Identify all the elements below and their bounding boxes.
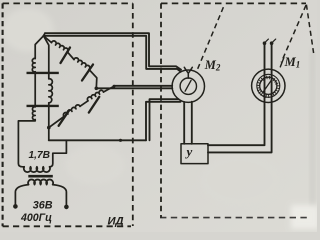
core slash of W4 [89, 97, 100, 113]
winding W2 coil [74, 58, 90, 70]
wire middle pair upper line [114, 85, 172, 87]
winding W3 coil [63, 105, 80, 117]
motor M2 Y symbol [184, 67, 192, 78]
winding W1 coil [52, 41, 69, 52]
wire between W3 and W4 [80, 101, 88, 107]
core slash of W2 [82, 65, 93, 81]
motor M2 leg left [183, 102, 185, 144]
winding W4 coil [87, 90, 103, 100]
motor M1 rotor slash [264, 80, 272, 92]
motor M2 rotor slash [185, 80, 191, 91]
wire T to left winding v1 [35, 36, 43, 59]
transformer T1 secondary winding [28, 179, 53, 184]
dashed enclosure ИД left box bottom edge [3, 225, 131, 227]
dashed slant to motor M2 [197, 7, 223, 70]
wire W4 to middle wire [104, 86, 115, 92]
terminal dot M1 right [270, 41, 274, 45]
wire У to M1 lower [208, 43, 272, 152]
amplifier У box [181, 144, 208, 164]
wire between W1 and W2 [68, 52, 75, 59]
junction dot on bottom wire [119, 139, 122, 142]
dashed slant to motor M1 [281, 5, 306, 62]
control winding v1 upper coil [32, 58, 35, 71]
svg-text:36В: 36В [33, 199, 53, 211]
wire top pair inner line to step [44, 36, 181, 71]
wire v1 to transformer primary [18, 120, 35, 167]
wire secondary left lead [15, 185, 28, 205]
wire bottom pair step up inner [146, 102, 181, 141]
wire bottom horizontal of bridge [49, 139, 146, 141]
svg-text:ИД: ИД [108, 216, 124, 228]
terminal tick M1 left [266, 39, 269, 42]
svg-text:400Гц: 400Гц [20, 212, 52, 224]
wire v2 down to bottom wire [48, 103, 50, 141]
motor M2 inner circle [180, 78, 196, 94]
svg-text:1,7В: 1,7В [29, 150, 51, 161]
label M1 pointer slash [280, 58, 284, 67]
terminal tick M1 right [273, 39, 276, 42]
wire middle pair lower line from node R [96, 87, 172, 89]
core bar lower [27, 105, 59, 107]
junction dot on middle wire [113, 85, 116, 88]
dashed enclosure right unit bottom edge [160, 217, 308, 219]
wire v1 between bars [34, 72, 36, 105]
dashed enclosure right unit left edge [160, 3, 162, 217]
node T top node of bridge [44, 33, 46, 36]
transformer T1 core bar [28, 175, 53, 178]
dashed enclosure ИД left box top edge [3, 2, 133, 4]
wire lower arm lead from junction [49, 117, 64, 128]
wire secondary right lead [53, 185, 67, 205]
control winding v1 lower coil [32, 107, 35, 120]
terminal dot right [64, 205, 69, 210]
motor M2 outer circle [172, 70, 204, 102]
terminal dot left [13, 204, 18, 209]
motor M1 outer circle [252, 69, 285, 102]
dashed enclosure ИД left box left edge [2, 3, 4, 226]
dashed enclosure ИД left box right edge [132, 3, 134, 226]
winding v2 coil [49, 79, 53, 103]
svg-text:у: у [185, 144, 193, 159]
wire primary right lead [50, 140, 67, 167]
winding W1 upper arm lead from T [44, 36, 52, 43]
core slash of W3 [59, 110, 70, 126]
core bar upper [27, 72, 59, 74]
wire T to right winding v2 [44, 36, 49, 79]
dashed enclosure right unit top edge [161, 2, 306, 4]
motor M1 inner circle [260, 77, 277, 94]
wire top pair outer line to step [45, 33, 181, 69]
dashed slant right outer edge [306, 5, 313, 53]
wire У to M1 upper [208, 43, 265, 145]
wire W2 to node R [89, 70, 97, 89]
motor M1 middle ring [257, 74, 280, 97]
core slash of W1 [61, 48, 71, 64]
junction dot on v2 [47, 126, 51, 130]
motor M1 commutator ticks [257, 76, 280, 98]
wire bottom pair step up outer [150, 99, 179, 140]
terminal dot M1 left [263, 41, 267, 45]
node R junction dot [95, 87, 99, 91]
transformer T1 primary winding [24, 167, 50, 172]
motor M2 leg right [191, 102, 193, 144]
